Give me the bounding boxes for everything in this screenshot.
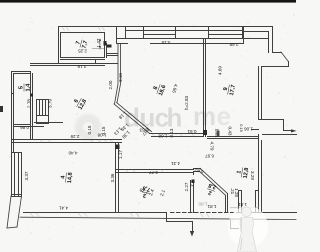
svg-text:2.4: 2.4 xyxy=(189,180,194,187)
shaft hatched box xyxy=(37,100,49,116)
chamfer room2 xyxy=(200,168,228,193)
left window band verticals xyxy=(11,153,13,197)
svg-text:1.06: 1.06 xyxy=(244,127,253,132)
svg-text:4.79: 4.79 xyxy=(210,142,215,151)
svg-text:1.81: 1.81 xyxy=(207,204,216,209)
room9 bottom wall xyxy=(208,136,259,138)
top-right diagonal xyxy=(281,52,288,61)
room6/8 divider (slanted) xyxy=(115,44,119,105)
svg-text:0.86: 0.86 xyxy=(20,125,29,130)
room 6 xyxy=(72,95,89,111)
svg-text:1.47: 1.47 xyxy=(96,38,101,47)
svg-text:0.19: 0.19 xyxy=(239,124,244,133)
room 6 top wall double xyxy=(31,63,118,65)
diagonal wall room6/corridor xyxy=(114,104,150,133)
window glazing segments xyxy=(144,34,243,36)
room 8 xyxy=(151,82,167,97)
niche right side walls xyxy=(258,67,260,120)
room 5 xyxy=(19,83,32,92)
svg-text:4.40: 4.40 xyxy=(68,151,77,156)
dim line 1.47 xyxy=(92,39,104,50)
room8 bottom corridor wall xyxy=(150,133,204,135)
svg-text:3.36: 3.36 xyxy=(110,173,115,182)
top scan black bar xyxy=(0,0,296,3)
svg-text:2.29: 2.29 xyxy=(70,134,79,139)
svg-text:14,8: 14,8 xyxy=(67,172,74,183)
svg-text:2.00: 2.00 xyxy=(108,80,113,89)
svg-text:3.16: 3.16 xyxy=(118,73,123,82)
svg-text:3.37: 3.37 xyxy=(24,171,29,180)
right wall lower double xyxy=(258,135,260,213)
room 3 xyxy=(140,184,151,199)
door hinge black blobs xyxy=(104,41,107,46)
svg-text:3.77: 3.77 xyxy=(149,170,158,175)
wall hatch ticks xyxy=(30,27,209,218)
room3/room2 divider xyxy=(190,181,192,213)
svg-text:1.21: 1.21 xyxy=(215,129,220,138)
svg-text:.21: .21 xyxy=(230,188,235,195)
svg-text:0.13: 0.13 xyxy=(169,128,174,137)
niche bottom ledge xyxy=(259,120,284,131)
svg-text:3.29: 3.29 xyxy=(250,171,255,180)
svg-text:4.18: 4.18 xyxy=(161,40,170,45)
svg-text:1.80: 1.80 xyxy=(198,202,207,207)
divider room8/9 xyxy=(203,39,205,137)
white statuette watermark bottom right xyxy=(228,206,268,252)
entry ledge with arrow xyxy=(284,130,292,132)
svg-text:0.15: 0.15 xyxy=(87,125,92,134)
svg-text:1,4: 1,4 xyxy=(26,83,32,92)
entry arrow head xyxy=(291,129,297,132)
svg-text:4.41: 4.41 xyxy=(59,206,68,211)
room 4 right wall with door gap xyxy=(115,143,117,213)
bottom wall lower line (slanted) xyxy=(20,217,296,219)
bottom wall top line with recess xyxy=(24,213,193,222)
room 2 top + chamfer xyxy=(194,168,201,170)
room 5 walls xyxy=(12,71,31,73)
room 4 top wall double xyxy=(12,139,122,141)
room 7 xyxy=(61,33,105,58)
dimension texts xyxy=(20,38,255,211)
room 3 top wall xyxy=(116,169,194,171)
svg-text:h: h xyxy=(167,103,183,133)
svg-text:2.68: 2.68 xyxy=(229,42,238,47)
room 1 xyxy=(236,166,250,179)
svg-text:0.15: 0.15 xyxy=(101,126,106,135)
shafts near hall bottom xyxy=(238,191,240,213)
svg-text:2.27: 2.27 xyxy=(184,182,189,191)
room 2 right wall xyxy=(225,196,227,213)
watermark letters xyxy=(124,101,231,133)
svg-text:5: 5 xyxy=(19,86,25,89)
svg-text:4.31: 4.31 xyxy=(171,161,180,166)
svg-text:1.08: 1.08 xyxy=(158,134,167,139)
svg-text:3.19: 3.19 xyxy=(77,64,86,69)
left exterior wall double xyxy=(11,72,13,153)
top window band inner lines xyxy=(126,30,244,32)
small step bottom right xyxy=(231,220,239,229)
entry lower line xyxy=(263,134,297,136)
exterior right upper outline xyxy=(273,27,282,53)
entrance arrow stem xyxy=(192,222,194,232)
room labels xyxy=(19,38,251,199)
svg-text:0.91: 0.91 xyxy=(187,129,196,134)
room 7 xyxy=(75,38,90,49)
svg-text:2.78: 2.78 xyxy=(27,99,32,108)
room 2 xyxy=(205,182,217,197)
svg-text:h=2.83: h=2.83 xyxy=(184,95,189,110)
room 4 xyxy=(60,172,74,184)
svg-text:6.97: 6.97 xyxy=(205,154,214,159)
room 9 xyxy=(222,83,237,96)
svg-text:3.79: 3.79 xyxy=(48,99,53,108)
entry left jamb xyxy=(252,129,259,131)
svg-text:2.25: 2.25 xyxy=(78,49,87,54)
svg-text:1.17: 1.17 xyxy=(118,150,123,159)
svg-text:0.43: 0.43 xyxy=(228,127,233,136)
watermark donut xyxy=(75,114,101,140)
svg-text:m: m xyxy=(193,101,216,131)
svg-text:4.69: 4.69 xyxy=(218,66,223,75)
thin guide line near hall xyxy=(230,207,259,209)
exterior top wall outer xyxy=(59,26,273,28)
left bay slants xyxy=(7,196,11,228)
